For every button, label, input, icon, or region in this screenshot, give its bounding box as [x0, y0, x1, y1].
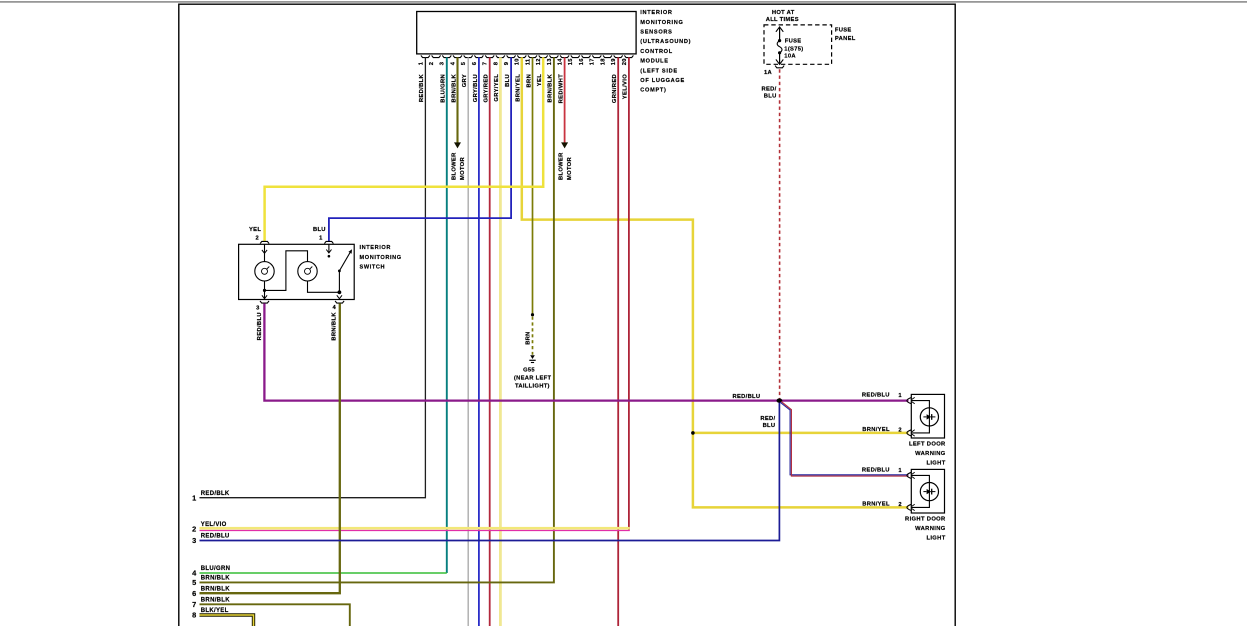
svg-text:FUSE: FUSE: [835, 28, 852, 34]
svg-text:RED/BLK: RED/BLK: [201, 491, 230, 497]
switch pin 2: [255, 235, 269, 243]
module pin 1 connector: [418, 55, 430, 65]
svg-text:16: 16: [579, 58, 585, 65]
svg-text:5: 5: [461, 61, 467, 65]
dashed RED/BLU wire from fuse: [779, 69, 781, 399]
module pin 2 connector: [429, 55, 441, 65]
row 6 label BRN/BLK: [192, 586, 230, 598]
svg-text:GRY/RED: GRY/RED: [484, 74, 490, 103]
wire row3 RED/BLU to junction: [200, 401, 780, 541]
svg-text:1: 1: [898, 468, 902, 474]
svg-text:CONTROL: CONTROL: [640, 49, 673, 55]
row 4 label BLU/GRN: [192, 566, 230, 578]
wire pin4 BRN/BLK to blower motor: [456, 57, 458, 143]
svg-text:BRN/BLK: BRN/BLK: [201, 586, 230, 592]
label BRN/YEL (right door pin2 wire): [862, 502, 902, 509]
wire pin12 YEL to switch pin2: [265, 57, 544, 241]
svg-text:6: 6: [472, 61, 478, 65]
module pin 8 connector: [493, 55, 505, 65]
svg-text:BLU: BLU: [313, 227, 326, 233]
svg-text:COMPT): COMPT): [640, 88, 666, 94]
svg-text:RED/BLU: RED/BLU: [733, 394, 761, 400]
svg-text:ALL TIMES: ALL TIMES: [766, 17, 799, 23]
switch internal wire pin2 to lamp1: [262, 244, 267, 261]
label BRN/YEL (left door pin2 wire): [862, 427, 902, 434]
svg-text:YEL/VIO: YEL/VIO: [623, 74, 629, 99]
module pin 3 connector: [440, 55, 452, 65]
svg-text:PANEL: PANEL: [835, 36, 856, 42]
label BLOWER MOTOR (pin4): [452, 152, 467, 180]
svg-text:BLOWER: BLOWER: [559, 152, 565, 180]
svg-text:1A: 1A: [764, 70, 773, 76]
module pin 11 connector: [525, 55, 537, 65]
svg-text:RED/: RED/: [762, 87, 777, 93]
label RED/BLU (left door pin1 wire): [862, 393, 902, 400]
svg-text:BLOWER: BLOWER: [452, 152, 458, 180]
svg-text:SWITCH: SWITCH: [360, 265, 386, 271]
switch internal wire lamp2 to pin4 junction: [308, 281, 340, 292]
label HOT AT ALL TIMES: [766, 10, 799, 23]
junction below lamp1: [263, 289, 266, 292]
switch pin 3: [256, 301, 269, 312]
svg-text:8: 8: [192, 611, 196, 620]
svg-text:GRY: GRY: [462, 74, 468, 87]
svg-text:TAILLIGHT): TAILLIGHT): [515, 383, 550, 389]
switch contact wire: [338, 271, 340, 292]
arrow to blower motor (pin14): [561, 142, 568, 148]
wire BRN/YEL branch to right door light pin2: [693, 433, 909, 508]
svg-text:BLU: BLU: [764, 93, 777, 99]
module pin 12 connector: [536, 55, 548, 65]
svg-text:LEFT DOOR: LEFT DOOR: [909, 441, 946, 447]
label FUSE 1(S75) 10A: [784, 38, 803, 59]
wire row8 BLK/YEL: [200, 615, 254, 626]
svg-text:MODULE: MODULE: [640, 59, 668, 65]
lamp 2 in switch: [298, 262, 317, 281]
svg-text:G55: G55: [523, 367, 535, 373]
svg-text:2: 2: [192, 525, 196, 534]
label FUSE PANEL: [835, 28, 856, 42]
wire pin10 BRN/YEL to door warning lights: [522, 57, 909, 433]
svg-text:4: 4: [192, 569, 197, 578]
module pin 19 connector: [611, 55, 623, 65]
wire pin5 GRY vertical: [467, 57, 469, 626]
svg-text:MOTOR: MOTOR: [460, 157, 466, 180]
svg-text:2: 2: [429, 62, 435, 65]
svg-text:SENSORS: SENSORS: [640, 30, 672, 36]
junction at switch pin4: [337, 290, 342, 298]
module pin 9 connector: [504, 55, 516, 65]
svg-text:13: 13: [547, 58, 553, 65]
module pin 5 connector: [461, 55, 473, 65]
svg-text:RIGHT DOOR: RIGHT DOOR: [905, 516, 946, 522]
svg-text:BRN: BRN: [526, 74, 532, 88]
wire pin6 GRY/BLU vertical: [478, 57, 480, 626]
module pin 7 connector: [483, 55, 495, 65]
svg-text:MONITORING: MONITORING: [640, 20, 683, 26]
svg-text:RED/BLU: RED/BLU: [201, 534, 230, 540]
wire RED/BLU branch to right door light pin1: [780, 402, 908, 477]
interior monitoring switch S1 box: [239, 244, 355, 299]
svg-text:12: 12: [536, 58, 542, 65]
switch contact dot: [338, 270, 341, 273]
wire pin20 YEL/VIO vertical: [628, 57, 630, 530]
svg-text:RED/BLU: RED/BLU: [257, 312, 263, 340]
label for right door warning light L2: [905, 516, 946, 541]
svg-text:1(S75): 1(S75): [784, 46, 803, 52]
svg-text:YEL/VIO: YEL/VIO: [201, 522, 227, 528]
right door warning light L2: [907, 469, 945, 513]
label RED/BLU (right door pin1 wire): [862, 467, 902, 474]
svg-text:LIGHT: LIGHT: [926, 535, 945, 541]
module pin 14 connector: [558, 55, 570, 65]
wire pin19 GRN/RED vertical: [617, 57, 619, 626]
svg-text:4: 4: [332, 305, 336, 311]
row 1 label RED/BLK: [192, 491, 230, 503]
svg-text:15: 15: [568, 58, 574, 65]
label RED/BLU (fuse wire): [762, 87, 777, 100]
label G55 (NEAR LEFT TAILLIGHT): [514, 367, 552, 389]
svg-text:YEL: YEL: [249, 227, 261, 233]
wire pin9 BLU to switch pin1: [329, 57, 511, 241]
svg-text:BLU/GRN: BLU/GRN: [201, 566, 230, 572]
svg-text:RED/WHT: RED/WHT: [558, 74, 564, 104]
svg-text:2: 2: [898, 502, 901, 508]
label RED/BLU (below junction): [760, 416, 775, 429]
switch blade with arrow: [339, 249, 352, 271]
svg-text:18: 18: [600, 58, 606, 65]
svg-text:RED/: RED/: [760, 416, 775, 422]
wire pin14 RED/WHT to blower motor: [564, 57, 566, 143]
svg-text:19: 19: [611, 58, 617, 65]
svg-text:MONITORING: MONITORING: [360, 255, 402, 261]
wire row4 BLU/GRN horizontal: [200, 572, 447, 574]
svg-text:8: 8: [493, 61, 499, 65]
svg-text:9: 9: [504, 61, 510, 65]
svg-text:7: 7: [192, 600, 196, 609]
svg-text:RED/BLU: RED/BLU: [862, 393, 890, 399]
wire row2 YEL/VIO horizontal yellow part: [200, 527, 630, 530]
svg-text:GRY/BLU: GRY/BLU: [473, 74, 479, 102]
svg-text:FUSE: FUSE: [785, 38, 802, 44]
wire pin3 BLU/GRN vertical: [446, 57, 448, 573]
control module U1 name label: [640, 10, 691, 94]
fuse panel output connector 1A: [764, 66, 784, 76]
module pin 17 connector: [590, 55, 602, 65]
svg-text:1: 1: [898, 393, 902, 399]
lamp 1 in switch: [255, 262, 274, 281]
wire pin1 RED/BLK to row 1: [200, 57, 426, 497]
label for left door warning light L1: [909, 441, 946, 466]
junction node RED/BLU: [777, 398, 783, 402]
ground G55 symbol: [529, 355, 535, 362]
module pin 18 connector: [600, 55, 612, 65]
module pin 13 connector: [547, 55, 559, 65]
svg-text:17: 17: [590, 58, 596, 65]
svg-text:WARNING: WARNING: [915, 526, 946, 532]
svg-text:BLU/GRN: BLU/GRN: [441, 74, 447, 103]
svg-text:10A: 10A: [784, 54, 796, 60]
svg-text:1: 1: [192, 493, 196, 502]
switch internal wire lamp1 to junction: [262, 281, 267, 300]
svg-text:BLU: BLU: [505, 74, 511, 87]
switch internal bridge wire to lamp2: [265, 251, 308, 291]
switch pin 1: [319, 235, 333, 243]
row 3 label RED/BLU: [192, 534, 229, 546]
svg-text:11: 11: [525, 58, 531, 65]
dashed BRN wire segment to G55: [532, 317, 534, 355]
svg-text:RED/BLK: RED/BLK: [419, 73, 425, 102]
svg-text:7: 7: [483, 62, 489, 65]
diagram frame border: [179, 4, 955, 626]
wire row7 BRN/BLK: [200, 604, 350, 626]
fuse panel dashed box: [764, 25, 832, 64]
svg-text:BRN: BRN: [525, 331, 531, 344]
module pin 15 connector: [568, 55, 580, 65]
svg-text:6: 6: [192, 589, 196, 598]
svg-text:GRN/RED: GRN/RED: [612, 74, 618, 103]
svg-text:BRN/BLK: BRN/BLK: [201, 576, 230, 582]
svg-text:BLU: BLU: [763, 423, 776, 429]
svg-text:3: 3: [440, 61, 446, 65]
svg-text:3: 3: [192, 536, 196, 545]
top grey rule: [0, 1, 1247, 3]
row 2 label YEL/VIO: [192, 522, 227, 534]
svg-text:2: 2: [255, 235, 258, 241]
module pin 10 connector: [515, 55, 527, 65]
svg-text:(NEAR LEFT: (NEAR LEFT: [514, 375, 552, 381]
svg-text:LIGHT: LIGHT: [926, 460, 945, 466]
svg-text:BRN/BLK: BRN/BLK: [451, 73, 457, 102]
module pin 6 connector: [472, 55, 484, 65]
module pin 4 connector: [450, 55, 462, 65]
svg-text:RED/BLU: RED/BLU: [862, 467, 890, 473]
wire pin8 GRY/YEL vertical: [499, 57, 502, 626]
row 5 label BRN/BLK: [192, 576, 230, 588]
svg-text:INTERIOR: INTERIOR: [640, 10, 672, 16]
wire switch pin4 BRN/BLK to row 6: [200, 303, 340, 593]
junction on BRN/YEL wire: [691, 431, 695, 435]
svg-text:1: 1: [319, 235, 323, 241]
svg-text:10: 10: [515, 58, 521, 65]
wire row2 YEL/VIO horizontal violet part: [200, 530, 630, 532]
arrow to blower motor (pin4): [454, 142, 461, 148]
svg-text:BRN/BLK: BRN/BLK: [331, 312, 337, 341]
svg-text:WARNING: WARNING: [915, 451, 946, 457]
switch pin 4: [332, 301, 344, 311]
wire pin11 BRN to ground: [532, 57, 534, 313]
junction on BRN wire: [531, 313, 534, 316]
wire pin13 BRN/BLK to row 5: [200, 57, 554, 582]
fuse F1 element: [776, 27, 783, 64]
switch internal wire pin1 contact: [326, 244, 331, 257]
svg-text:INTERIOR: INTERIOR: [360, 245, 392, 251]
svg-text:5: 5: [192, 578, 196, 587]
svg-text:BLK/YEL: BLK/YEL: [201, 608, 229, 614]
left door warning light L1: [907, 394, 945, 438]
label INTERIOR MONITORING SWITCH: [360, 245, 402, 270]
row 8 label BLK/YEL: [192, 608, 229, 620]
wire switch pin3 RED/BLU purple to door lights: [264, 303, 908, 400]
svg-text:OF LUGGAGE: OF LUGGAGE: [640, 78, 685, 84]
svg-text:BRN/BLK: BRN/BLK: [548, 73, 554, 102]
wire pin7 GRY/RED vertical: [489, 57, 491, 626]
svg-text:14: 14: [558, 58, 564, 65]
svg-text:BRN/YEL: BRN/YEL: [862, 427, 890, 433]
control module U1 box: [417, 12, 636, 54]
svg-text:20: 20: [622, 58, 628, 65]
row 7 label BRN/BLK: [192, 597, 230, 609]
svg-text:MOTOR: MOTOR: [567, 157, 573, 180]
svg-text:2: 2: [898, 428, 901, 434]
label BLOWER MOTOR (pin14): [559, 152, 574, 180]
svg-text:BRN/YEL: BRN/YEL: [862, 502, 890, 508]
svg-text:BRN/BLK: BRN/BLK: [201, 597, 230, 603]
svg-text:(LEFT SIDE: (LEFT SIDE: [640, 68, 677, 74]
module pin 16 connector: [579, 55, 591, 65]
svg-text:1: 1: [418, 61, 424, 65]
module pin 20 connector: [622, 55, 634, 65]
svg-text:(ULTRASOUND): (ULTRASOUND): [640, 39, 691, 45]
svg-text:4: 4: [450, 61, 456, 65]
svg-text:HOT AT: HOT AT: [772, 10, 795, 16]
svg-text:3: 3: [256, 306, 260, 312]
